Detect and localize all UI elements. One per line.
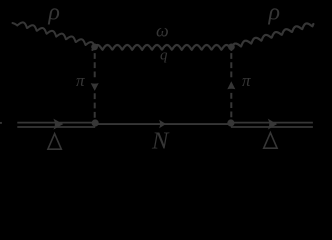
svg-text:π: π xyxy=(76,71,85,90)
left Delta double line upper stroke xyxy=(17,122,95,124)
incoming rho photon wavy line (top-left) xyxy=(17,22,95,48)
omega exchange wavy line (middle) xyxy=(93,45,232,50)
Feynman diagram: rho N -> rho Delta via omega / pi exchange xyxy=(0,0,332,159)
left pion dashed propagator (lower part) xyxy=(94,93,96,120)
svg-text:ρ: ρ xyxy=(268,0,281,25)
svg-text:ω: ω xyxy=(156,20,169,40)
left pion arrow (down) xyxy=(91,83,99,91)
outgoing rho photon wavy line (top-right) xyxy=(231,23,313,49)
label Delta (left), drawn triangle xyxy=(48,134,61,150)
vertex dot bottom-right xyxy=(227,119,234,126)
svg-text:ρ: ρ xyxy=(47,0,60,26)
svg-text:π: π xyxy=(242,71,251,90)
right Delta double line upper stroke xyxy=(231,122,313,124)
left pion dashed propagator (upper part) xyxy=(94,53,96,81)
right Delta double line lower stroke xyxy=(231,126,313,128)
svg-text:N: N xyxy=(151,127,170,154)
N nucleon line (middle) xyxy=(95,123,231,125)
svg-text:q: q xyxy=(160,48,168,64)
vertex dot top-left xyxy=(91,44,98,51)
right pion dashed propagator (lower part) xyxy=(230,93,232,120)
right Delta arrow xyxy=(268,119,277,130)
label Delta (right), drawn triangle xyxy=(264,133,277,149)
right pion dashed propagator (upper part) xyxy=(230,53,232,80)
right pion arrow (up) xyxy=(227,81,235,89)
N line arrow xyxy=(159,120,166,129)
vertex dot bottom-left xyxy=(92,119,99,126)
vertex dot top-right xyxy=(228,44,235,51)
left Delta double line lower stroke xyxy=(17,126,95,128)
left edge stub of Delta line xyxy=(0,122,2,124)
left Delta arrow xyxy=(53,119,63,130)
incoming rho photon wavy line start flick xyxy=(13,23,18,25)
